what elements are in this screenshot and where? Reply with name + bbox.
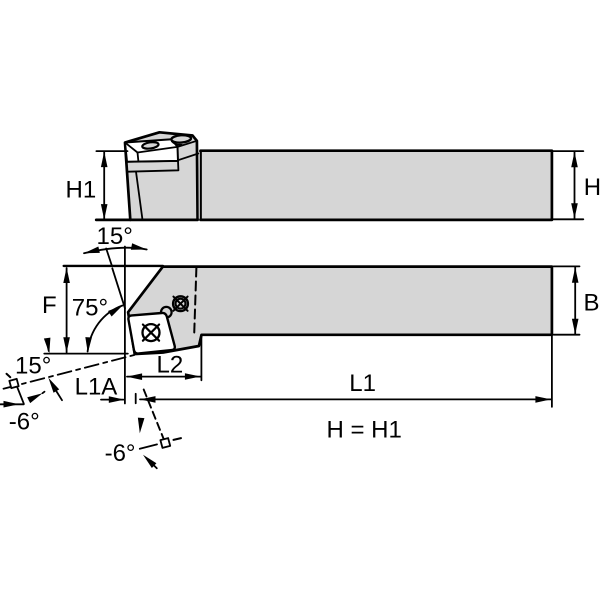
svg-text:L1: L1 <box>349 370 376 397</box>
svg-text:75°: 75° <box>72 295 108 322</box>
svg-text:B: B <box>584 289 600 316</box>
svg-text:F: F <box>42 292 57 319</box>
svg-text:H1: H1 <box>66 176 97 203</box>
svg-text:-6°: -6° <box>105 440 136 467</box>
svg-text:15°: 15° <box>97 223 133 250</box>
svg-text:-6°: -6° <box>9 409 40 436</box>
svg-text:H: H <box>584 174 600 201</box>
svg-text:15°: 15° <box>15 352 51 379</box>
svg-text:H = H1: H = H1 <box>327 417 402 444</box>
svg-text:L2: L2 <box>157 351 184 378</box>
svg-text:L1A: L1A <box>75 374 118 401</box>
